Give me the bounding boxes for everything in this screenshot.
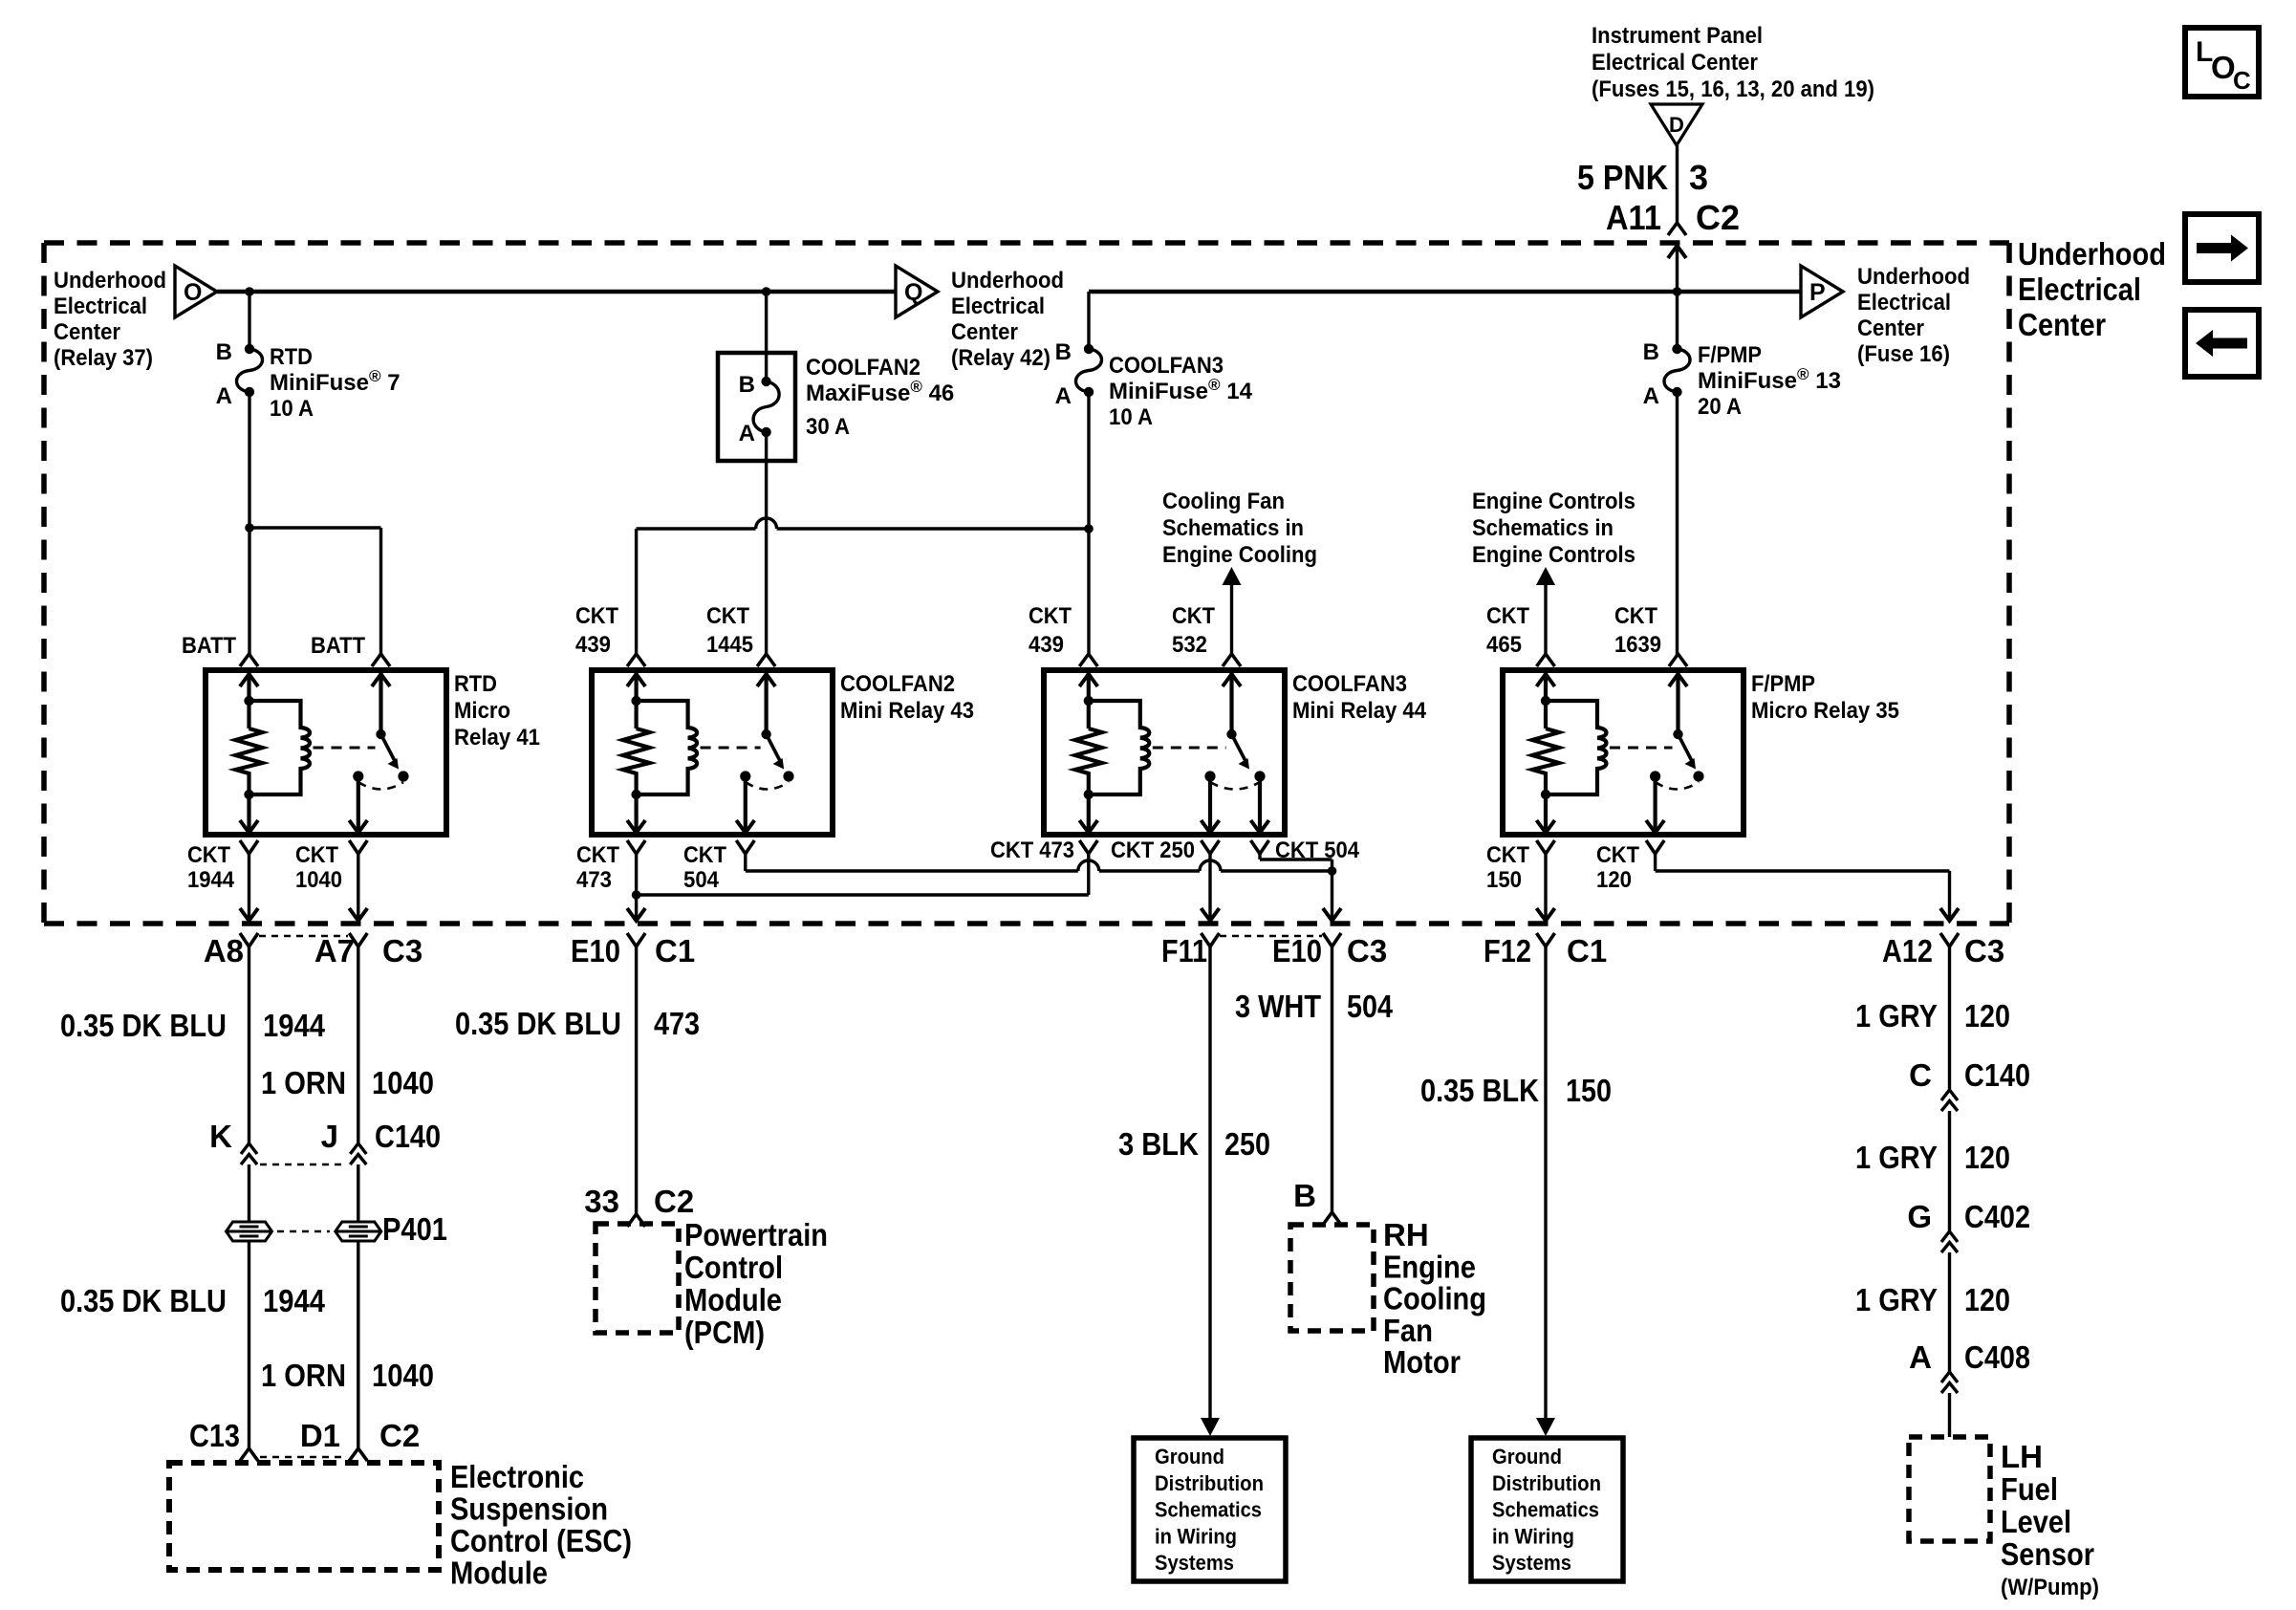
- svg-text:MiniFuse® 14: MiniFuse® 14: [1109, 376, 1253, 404]
- svg-text:C: C: [2233, 66, 2251, 95]
- relay switch arm: [1679, 734, 1693, 761]
- svg-text:F11: F11: [1161, 933, 1207, 968]
- wire to relay 41 coil terminal: [248, 528, 250, 655]
- relay actuation dashed link: [701, 747, 761, 750]
- svg-text:CKT: CKT: [1614, 603, 1657, 629]
- svg-text:RH: RH: [1383, 1217, 1429, 1252]
- svg-text:150: 150: [1486, 867, 1522, 893]
- svg-text:E10: E10: [1272, 933, 1322, 968]
- svg-text:K: K: [209, 1119, 232, 1154]
- svg-text:120: 120: [1964, 1140, 2010, 1175]
- wire CKT 504 junction to border: [1331, 871, 1333, 921]
- svg-text:Center: Center: [1857, 315, 1924, 341]
- svg-text:CKT: CKT: [1486, 842, 1529, 868]
- bus wire from O to Q: [217, 290, 896, 294]
- up-arrow entering Underhood Electrical Center: [1668, 246, 1686, 258]
- arrow into ground distribution (right): [1536, 1418, 1555, 1436]
- svg-text:3 BLK: 3 BLK: [1118, 1126, 1199, 1162]
- svg-text:D: D: [1669, 113, 1684, 137]
- relay switch-side top terminal: [1223, 654, 1241, 666]
- grommet P401 left: [227, 1222, 272, 1241]
- svg-text:A: A: [1909, 1339, 1932, 1375]
- Electronic Suspension Control (ESC) Module dashed box: [169, 1463, 439, 1570]
- svg-text:CKT: CKT: [683, 842, 726, 868]
- COOLFAN2 MaxiFuse 46 box: [718, 353, 795, 461]
- relay coil-side bottom terminal: [1537, 820, 1555, 833]
- svg-text:Schematics: Schematics: [1492, 1498, 1599, 1522]
- relay switch arm: [767, 734, 781, 761]
- inline connector C140: [1941, 1090, 1958, 1100]
- RH Engine Cooling Fan Motor dashed box: [1290, 1225, 1374, 1331]
- svg-text:1040: 1040: [372, 1358, 434, 1393]
- wire CKT 504 relay 44 to junction: [1258, 854, 1261, 859]
- svg-text:1445: 1445: [706, 632, 753, 658]
- relay suppression resistor: [1532, 729, 1559, 833]
- svg-text:B: B: [1643, 339, 1659, 365]
- svg-text:C13: C13: [189, 1418, 240, 1453]
- wire below P401 left: [248, 1241, 250, 1448]
- svg-text:COOLFAN3: COOLFAN3: [1109, 353, 1224, 379]
- wire CKT 150 relay 35 to border: [1544, 854, 1547, 921]
- wire 250 below F11: [1208, 946, 1211, 1430]
- svg-text:Fuel: Fuel: [2001, 1471, 2058, 1507]
- svg-text:30 A: 30 A: [806, 414, 850, 440]
- connector chevron B: [1323, 1212, 1341, 1225]
- connector A8: [240, 933, 258, 946]
- svg-text:Schematics in: Schematics in: [1162, 515, 1304, 541]
- relay coil-side bottom terminal: [240, 820, 258, 833]
- CKT 465 up-arrow to Engine Controls: [1536, 567, 1555, 585]
- svg-text:CKT: CKT: [1172, 603, 1215, 629]
- svg-text:A11: A11: [1606, 198, 1661, 237]
- svg-text:A: A: [739, 421, 755, 446]
- svg-text:CKT: CKT: [576, 842, 619, 868]
- relay output bottom terminal: [357, 776, 360, 833]
- svg-text:O: O: [2211, 50, 2236, 85]
- left-arrow legend box: [2185, 310, 2259, 377]
- off-page connector P (Underhood Electrical Center Fuse 16): [1801, 266, 1843, 317]
- svg-text:Underhood: Underhood: [54, 268, 166, 294]
- svg-text:Schematics in: Schematics in: [1472, 515, 1614, 541]
- svg-text:150: 150: [1566, 1073, 1612, 1108]
- relay coil: [637, 701, 697, 794]
- svg-text:COOLFAN3: COOLFAN3: [1292, 671, 1407, 697]
- svg-text:MiniFuse® 7: MiniFuse® 7: [270, 367, 401, 396]
- svg-text:Electronic: Electronic: [450, 1459, 584, 1494]
- connector chevron D1: [349, 1448, 367, 1461]
- svg-text:MiniFuse® 13: MiniFuse® 13: [1698, 365, 1841, 394]
- relay output bottom terminal: [1208, 776, 1212, 833]
- relay output contact dot: [353, 771, 363, 781]
- relay actuation dashed link: [314, 747, 376, 750]
- svg-text:CKT 473: CKT 473: [990, 838, 1074, 863]
- relay coil: [1546, 701, 1606, 794]
- svg-text:3 WHT: 3 WHT: [1235, 989, 1321, 1024]
- svg-text:Engine Controls: Engine Controls: [1472, 542, 1635, 568]
- relay switch-side top terminal: [1669, 654, 1687, 666]
- relay switch arm: [1232, 734, 1246, 761]
- wire relay 41 feed split: [249, 526, 381, 529]
- svg-text:Ground: Ground: [1155, 1445, 1224, 1469]
- connector chevron A11/C2: [1668, 223, 1686, 235]
- Underhood Electrical Center enclosure (dashed box): [44, 243, 2009, 924]
- relay F/PMP box: [1503, 670, 1744, 835]
- wire K to P401: [248, 1164, 250, 1222]
- svg-text:Systems: Systems: [1492, 1551, 1571, 1575]
- CKT 532 up-arrow to Engine Cooling: [1223, 567, 1242, 585]
- svg-text:F/PMP: F/PMP: [1751, 671, 1815, 697]
- svg-text:Control (ESC): Control (ESC): [450, 1523, 632, 1558]
- svg-text:20 A: 20 A: [1698, 394, 1742, 420]
- svg-text:C3: C3: [1964, 933, 2004, 968]
- svg-text:33: 33: [584, 1184, 619, 1219]
- wire from border arrow to bus junction: [1676, 246, 1679, 349]
- svg-text:CKT: CKT: [1486, 603, 1529, 629]
- svg-text:BATT: BATT: [182, 633, 236, 659]
- svg-text:RTD: RTD: [270, 344, 313, 370]
- connector chevron C13: [240, 1448, 258, 1461]
- svg-text:A: A: [1055, 383, 1072, 409]
- svg-text:10 A: 10 A: [1109, 404, 1153, 430]
- svg-text:Electrical Center: Electrical Center: [1592, 50, 1758, 76]
- wire CKT 439 to relay 43 coil (hops COOLFAN2 wire): [637, 527, 756, 530]
- svg-text:473: 473: [576, 867, 612, 893]
- relay suppression resistor: [236, 729, 263, 833]
- Powertrain Control Module dashed box: [596, 1224, 679, 1333]
- svg-text:C408: C408: [1964, 1339, 2030, 1375]
- wire bus to COOLFAN2 MaxiFuse: [765, 292, 768, 381]
- junction dot relay 41 feed: [245, 523, 254, 533]
- junction dot CKT 504: [1328, 866, 1337, 876]
- off-page connector Q (Underhood Electrical Center Relay 42): [896, 266, 938, 317]
- svg-text:Distribution: Distribution: [1492, 1471, 1601, 1495]
- svg-text:Instrument Panel: Instrument Panel: [1592, 23, 1763, 49]
- relay coil-side top terminal: [240, 654, 258, 666]
- svg-text:439: 439: [1029, 632, 1064, 658]
- relay switch arm end contact dot: [1693, 771, 1703, 781]
- svg-text:Ground: Ground: [1492, 1445, 1562, 1469]
- P401 dashed link and label: [277, 1230, 330, 1233]
- svg-text:Electrical: Electrical: [1857, 290, 1951, 315]
- svg-text:Center: Center: [54, 319, 120, 345]
- relay suppression resistor: [1075, 729, 1102, 833]
- svg-text:1944: 1944: [187, 867, 235, 893]
- relay switch common dot: [761, 729, 770, 739]
- wire CKT 120 relay 35 to A12: [1654, 854, 1657, 871]
- relay coil feed dots: [1084, 696, 1094, 706]
- wire 473 below E10: [635, 946, 638, 1214]
- svg-text:J: J: [321, 1119, 338, 1154]
- wire MaxiFuse to relay 43 switch terminal: [765, 432, 768, 655]
- inline connector K (C140): [241, 1143, 257, 1154]
- wire COOLFAN3 fuse to junction: [1087, 392, 1090, 655]
- wire C408 to LH fuel level sensor: [1948, 1393, 1951, 1437]
- svg-text:0.35 DK BLU: 0.35 DK BLU: [455, 1006, 621, 1041]
- svg-text:CKT: CKT: [187, 842, 230, 868]
- svg-text:Micro: Micro: [454, 698, 510, 724]
- relay COOLFAN2 box: [592, 670, 833, 835]
- wire 120 below A12: [1948, 946, 1951, 1090]
- svg-text:CKT: CKT: [1596, 842, 1639, 868]
- svg-text:A: A: [216, 383, 232, 409]
- svg-text:Engine: Engine: [1383, 1249, 1476, 1284]
- relay coil feed dots: [631, 696, 640, 706]
- svg-text:Fan: Fan: [1383, 1313, 1433, 1348]
- svg-text:Center: Center: [951, 319, 1018, 345]
- svg-text:RTD: RTD: [454, 671, 497, 697]
- connector F11: [1202, 933, 1220, 946]
- svg-text:Suspension: Suspension: [450, 1491, 608, 1527]
- svg-text:P401: P401: [382, 1211, 447, 1247]
- connector F12/C1: [1537, 933, 1555, 946]
- relay output contact dot: [1650, 771, 1660, 781]
- connector A7/C3: [349, 933, 367, 946]
- relay coil-side bottom terminal: [1079, 820, 1097, 833]
- svg-text:Engine Cooling: Engine Cooling: [1162, 542, 1317, 568]
- svg-text:C2: C2: [1696, 198, 1740, 237]
- svg-text:3: 3: [1689, 158, 1708, 197]
- svg-text:C140: C140: [375, 1119, 441, 1154]
- wire RTD fuse to relay 41 feed junction: [248, 392, 250, 528]
- Ground Distribution Schematics box (right): [1471, 1438, 1623, 1581]
- wire C402 to C408: [1948, 1252, 1951, 1372]
- svg-text:473: 473: [654, 1006, 700, 1041]
- svg-text:(PCM): (PCM): [684, 1315, 765, 1350]
- wire CKT 1944 relay 41 to border: [248, 854, 250, 921]
- relay second output bottom terminal: [1258, 776, 1262, 833]
- svg-text:LH: LH: [2001, 1439, 2043, 1474]
- svg-text:CKT: CKT: [1029, 603, 1072, 629]
- connector chevron 33/C2: [627, 1214, 645, 1227]
- LH Fuel Level Sensor dashed box: [1909, 1437, 1990, 1541]
- relay output bottom terminal: [744, 776, 747, 833]
- connector bridge C13-D1 dashed: [260, 1456, 347, 1459]
- svg-text:Sensor: Sensor: [2001, 1536, 2094, 1572]
- relay output contact dot: [740, 771, 750, 781]
- right-arrow legend box: [2185, 214, 2259, 282]
- svg-text:10 A: 10 A: [270, 396, 314, 422]
- connector bridge A8-A7 dashed: [259, 935, 348, 938]
- svg-text:D1: D1: [300, 1418, 340, 1453]
- connector E10/C1: [627, 933, 645, 946]
- fuse F/PMP MiniFuse 13 (20A): [1664, 349, 1690, 392]
- bus junction dot at COOLFAN2 fuse tap: [762, 287, 771, 296]
- relay contact dashed arc: [746, 782, 789, 790]
- svg-text:CKT: CKT: [706, 603, 749, 629]
- connector A12/C3: [1940, 933, 1959, 946]
- svg-text:F/PMP: F/PMP: [1698, 342, 1762, 368]
- relay switch-side top terminal: [372, 654, 390, 666]
- svg-text:(W/Pump): (W/Pump): [2001, 1575, 2099, 1600]
- svg-text:Q: Q: [904, 279, 922, 306]
- relay actuation dashed link: [1153, 747, 1226, 750]
- inline connector J (C140): [350, 1143, 366, 1154]
- svg-text:C1: C1: [655, 933, 695, 968]
- svg-text:120: 120: [1964, 998, 2010, 1033]
- relay switch common dot: [1673, 729, 1682, 739]
- svg-text:A8: A8: [204, 933, 244, 968]
- svg-text:Underhood: Underhood: [951, 268, 1064, 294]
- svg-text:P: P: [1809, 279, 1826, 306]
- svg-text:in Wiring: in Wiring: [1155, 1524, 1237, 1548]
- svg-text:C3: C3: [382, 933, 422, 968]
- svg-text:C1: C1: [1567, 933, 1607, 968]
- relay coil feed dots: [1541, 696, 1550, 706]
- relay suppression resistor: [623, 729, 650, 833]
- fuse COOLFAN3 MiniFuse 14 (10A): [1076, 349, 1102, 392]
- relay switch-side top terminal: [757, 654, 775, 666]
- svg-text:250: 250: [1224, 1126, 1270, 1162]
- svg-text:Relay 41: Relay 41: [454, 725, 540, 751]
- connector E10/C3: [1323, 933, 1341, 946]
- svg-text:COOLFAN2: COOLFAN2: [806, 355, 921, 381]
- svg-text:COOLFAN2: COOLFAN2: [840, 671, 955, 697]
- wire below P401 right: [357, 1241, 359, 1448]
- relay coil-side top terminal: [1079, 654, 1097, 666]
- svg-text:B: B: [216, 339, 232, 365]
- svg-text:1040: 1040: [295, 867, 342, 893]
- svg-text:C2: C2: [654, 1184, 694, 1219]
- bus junction dot at F/PMP fuse tap: [1673, 287, 1682, 296]
- svg-text:5 PNK: 5 PNK: [1577, 158, 1668, 197]
- svg-text:1 ORN: 1 ORN: [261, 1065, 346, 1100]
- bus junction dot at RTD fuse tap: [245, 287, 254, 296]
- svg-text:Engine Controls: Engine Controls: [1472, 489, 1635, 514]
- svg-text:A7: A7: [314, 933, 355, 968]
- svg-text:Electrical: Electrical: [2018, 272, 2141, 307]
- relay contact dashed arc: [1656, 782, 1699, 790]
- relay switch common dot: [376, 729, 385, 739]
- svg-text:C3: C3: [1347, 933, 1387, 968]
- svg-text:1944: 1944: [263, 1008, 326, 1043]
- svg-text:CKT: CKT: [575, 603, 618, 629]
- svg-text:E10: E10: [571, 933, 620, 968]
- wire CKT 473 link relay 44 to relay 43: [1087, 854, 1090, 895]
- svg-text:1 ORN: 1 ORN: [261, 1358, 346, 1393]
- svg-text:C402: C402: [1964, 1199, 2030, 1234]
- svg-text:Distribution: Distribution: [1155, 1471, 1264, 1495]
- relay output bottom terminal: [1653, 776, 1657, 833]
- svg-text:B: B: [1293, 1178, 1316, 1213]
- fuse RTD MiniFuse 7 (10A): [237, 349, 263, 392]
- svg-text:(Relay 37): (Relay 37): [54, 345, 153, 371]
- svg-text:Center: Center: [2018, 307, 2106, 342]
- svg-text:1944: 1944: [263, 1283, 326, 1318]
- wire bus to RTD fuse: [248, 292, 250, 349]
- svg-text:Level: Level: [2001, 1504, 2071, 1539]
- svg-text:A12: A12: [1882, 933, 1933, 968]
- svg-text:(Fuse 16): (Fuse 16): [1857, 341, 1950, 367]
- svg-text:A: A: [1643, 383, 1659, 409]
- fuse COOLFAN2 MaxiFuse 46 (30A): [753, 381, 779, 432]
- svg-text:O: O: [184, 279, 202, 306]
- wire 1944 below A8: [248, 946, 250, 1143]
- svg-text:120: 120: [1596, 867, 1632, 893]
- svg-text:Electrical: Electrical: [54, 294, 147, 319]
- off-page connector O (Underhood Electrical Center Relay 37): [175, 266, 217, 317]
- svg-text:Module: Module: [684, 1282, 782, 1317]
- relay switch common dot: [1226, 729, 1236, 739]
- svg-text:Control: Control: [684, 1250, 783, 1285]
- svg-text:(Relay 42): (Relay 42): [951, 345, 1051, 371]
- Ground Distribution Schematics box (left): [1134, 1438, 1286, 1581]
- svg-text:1 GRY: 1 GRY: [1855, 1140, 1938, 1175]
- relay coil feed dots: [244, 696, 253, 706]
- svg-text:B: B: [1055, 339, 1072, 365]
- wire 150 below F12: [1544, 946, 1547, 1430]
- svg-text:1040: 1040: [372, 1065, 434, 1100]
- svg-text:Powertrain: Powertrain: [684, 1217, 828, 1252]
- LOC legend box: [2185, 28, 2259, 97]
- relay switch arm end contact dot: [783, 771, 793, 781]
- svg-text:Motor: Motor: [1383, 1344, 1461, 1380]
- wire bus corner to COOLFAN3 fuse: [1087, 292, 1090, 349]
- relay coil-side top terminal: [1537, 654, 1555, 666]
- relay switch arm: [381, 734, 396, 761]
- wire F/PMP fuse to relay 35 switch terminal: [1676, 392, 1679, 655]
- svg-text:(Fuses 15, 16, 13, 20 and 19): (Fuses 15, 16, 13, 20 and 19): [1592, 76, 1874, 102]
- svg-text:0.35 BLK: 0.35 BLK: [1420, 1073, 1539, 1108]
- svg-text:in Wiring: in Wiring: [1492, 1524, 1574, 1548]
- svg-text:532: 532: [1172, 632, 1207, 658]
- svg-text:439: 439: [575, 632, 611, 658]
- svg-text:Underhood: Underhood: [1857, 264, 1970, 290]
- connector bridge F11-E10 dashed: [1220, 935, 1322, 938]
- wire C140 to C402: [1948, 1111, 1951, 1231]
- off-page connector D (Instrument Panel Electrical Center): [1651, 104, 1702, 145]
- svg-text:120: 120: [1964, 1282, 2010, 1317]
- relay coil: [1089, 701, 1149, 794]
- svg-text:CKT 250: CKT 250: [1111, 838, 1195, 863]
- wire 1040 below A7: [357, 946, 359, 1143]
- svg-text:Micro Relay 35: Micro Relay 35: [1751, 698, 1899, 724]
- relay coil-side bottom terminal: [627, 820, 645, 833]
- relay switch arm end contact dot: [1254, 771, 1265, 781]
- svg-text:0.35 DK BLU: 0.35 DK BLU: [60, 1008, 227, 1043]
- svg-text:Systems: Systems: [1155, 1551, 1234, 1575]
- svg-text:Underhood: Underhood: [2018, 236, 2166, 272]
- wire CKT 504 relay 43 to junction (hops CKT473 and CKT250): [744, 854, 747, 871]
- wire CKT 473 relay 43 to border: [635, 854, 638, 921]
- svg-text:1 GRY: 1 GRY: [1855, 998, 1938, 1033]
- connector bridge K-J dashed: [260, 1164, 347, 1166]
- wire 504 below E10/C3: [1331, 946, 1333, 1212]
- svg-text:CKT: CKT: [295, 842, 338, 868]
- svg-text:C2: C2: [379, 1418, 420, 1453]
- relay actuation dashed link: [1610, 747, 1673, 750]
- svg-text:BATT: BATT: [311, 633, 365, 659]
- svg-text:504: 504: [683, 867, 720, 893]
- svg-text:Schematics: Schematics: [1155, 1498, 1262, 1522]
- svg-text:Cooling: Cooling: [1383, 1281, 1486, 1316]
- relay RTD box: [206, 670, 446, 835]
- svg-text:504: 504: [1347, 989, 1394, 1024]
- relay contact dashed arc: [358, 782, 403, 790]
- wire from connector D to connector A11: [1676, 145, 1679, 223]
- svg-text:Mini Relay 43: Mini Relay 43: [840, 698, 974, 724]
- relay COOLFAN3 box: [1044, 670, 1285, 835]
- svg-text:465: 465: [1486, 632, 1522, 658]
- junction dot CKT 439 split: [1084, 524, 1094, 533]
- svg-text:C: C: [1909, 1057, 1932, 1093]
- svg-text:0.35 DK BLU: 0.35 DK BLU: [60, 1283, 227, 1318]
- arrow into ground distribution (left): [1201, 1418, 1220, 1436]
- wire CKT 250 relay 44 to border: [1208, 854, 1211, 921]
- svg-text:Module: Module: [450, 1556, 548, 1591]
- inline connector C408: [1941, 1372, 1958, 1382]
- relay output contact dot: [1204, 771, 1215, 781]
- svg-text:B: B: [739, 372, 755, 398]
